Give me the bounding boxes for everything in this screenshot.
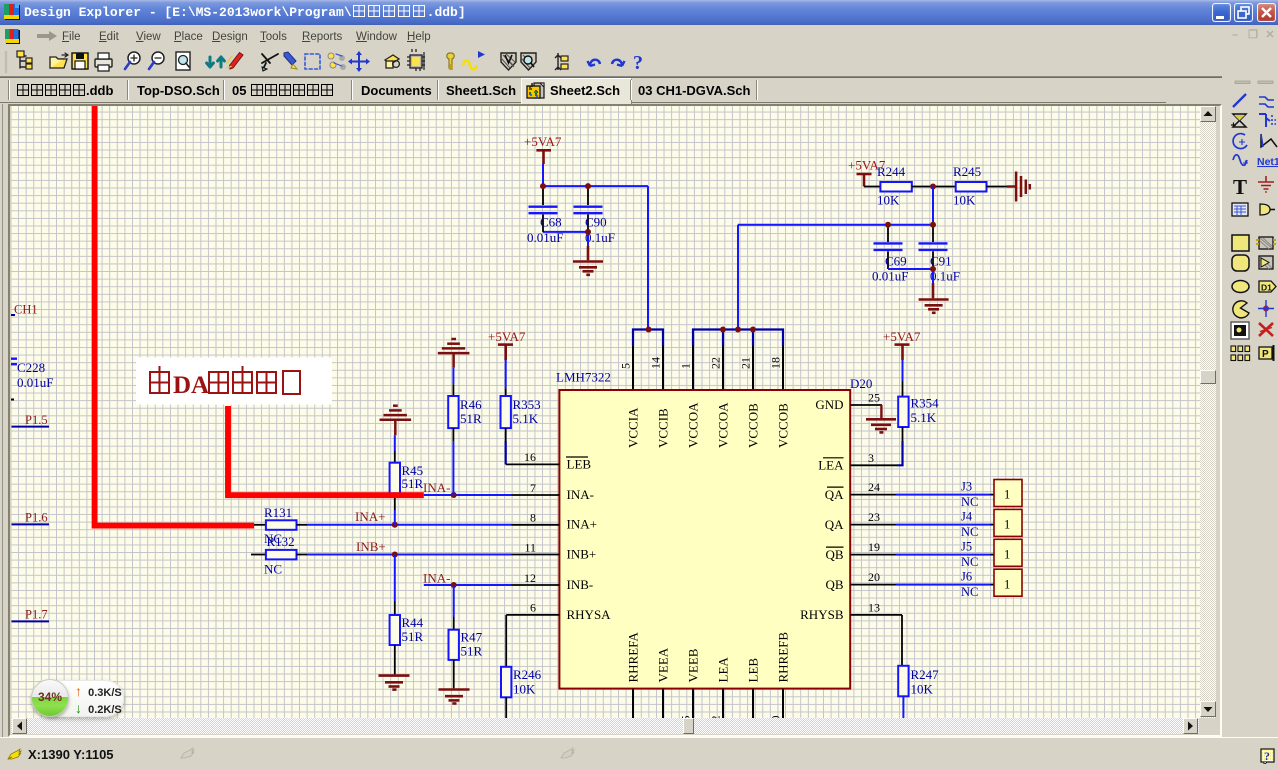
svg-text:5: 5 <box>619 363 633 369</box>
bracket over pins 5,14 <box>633 330 663 347</box>
svg-text:VCCOA: VCCOA <box>686 402 701 448</box>
svg-text:P1.6: P1.6 <box>25 511 48 525</box>
zoom out <box>152 52 164 64</box>
wrench yellow <box>447 53 454 68</box>
earth ground (right of R245) <box>1016 172 1030 202</box>
svg-text:R247: R247 <box>911 667 940 682</box>
row11: no-ERC X <box>1259 323 1273 336</box>
ground (R44) <box>379 676 410 690</box>
wire R354 to pin3 <box>902 427 904 441</box>
capacitor C228 (edge) <box>8 359 17 365</box>
connector J6 <box>994 569 1022 596</box>
red pencil <box>230 53 244 70</box>
svg-text:24: 24 <box>868 480 880 494</box>
svg-text:8: 8 <box>530 511 536 525</box>
svg-text:LEB: LEB <box>567 457 592 472</box>
svg-text:+5VA7: +5VA7 <box>524 134 562 149</box>
svg-text:+5VA7: +5VA7 <box>883 329 921 344</box>
open folder <box>50 59 67 68</box>
svg-text:P1.7: P1.7 <box>25 608 48 622</box>
svg-text:VCCIB: VCCIB <box>656 408 671 448</box>
svg-text:J4: J4 <box>961 509 973 523</box>
capacitor C91 <box>932 226 934 269</box>
menu bar <box>0 25 1278 48</box>
row6: power plug <box>1260 204 1270 215</box>
inverted ground (above R46) <box>438 339 470 368</box>
net label CH1 <box>8 314 15 316</box>
svg-text:LEA: LEA <box>818 458 844 473</box>
pin 6 wire (RHYSA) <box>506 614 559 616</box>
ground (C90) <box>573 246 603 275</box>
svg-text:INA-: INA- <box>423 570 450 585</box>
wire junction down <box>932 187 934 225</box>
svg-text:3: 3 <box>868 451 874 465</box>
svg-text:5.1K: 5.1K <box>513 411 539 426</box>
svg-text:1: 1 <box>1004 548 1010 562</box>
up down arrows <box>207 57 214 67</box>
connector J4 <box>994 509 1022 536</box>
ground (C91) <box>919 283 949 313</box>
svg-text:R132: R132 <box>267 534 295 549</box>
svg-text:RHREFB: RHREFB <box>776 632 791 683</box>
svg-text:1: 1 <box>1004 488 1010 502</box>
svg-text:INA+: INA+ <box>355 509 385 524</box>
chip pin name labels <box>567 397 845 682</box>
wire C69 top rail from chip bracket <box>738 224 933 226</box>
svg-text:J6: J6 <box>961 569 972 583</box>
row12: dot array <box>1231 346 1250 361</box>
svg-text:18: 18 <box>769 357 783 369</box>
svg-text:QB: QB <box>825 577 843 592</box>
svg-text:51R: 51R <box>461 644 483 659</box>
row2: hourglass paste <box>1233 114 1246 127</box>
shield 2 <box>521 53 536 70</box>
row3: arc <box>1233 134 1247 149</box>
move cross <box>350 53 367 70</box>
undo <box>588 60 601 66</box>
pin 11 wire (INB+) <box>307 554 512 556</box>
svg-text:0.01uF: 0.01uF <box>17 375 53 390</box>
svg-text:T: T <box>1233 175 1247 199</box>
title bar <box>0 0 1278 25</box>
wire R245 to earth <box>987 186 1008 188</box>
resistor R247 <box>898 666 908 697</box>
row11: graph box <box>1231 322 1249 339</box>
row6: sheet part <box>1232 203 1248 216</box>
pin 25 wire GND <box>850 404 882 406</box>
svg-text:J3: J3 <box>961 479 972 493</box>
svg-text:LEB: LEB <box>746 658 761 683</box>
row8: sheet symbol <box>1259 256 1273 269</box>
svg-text:51R: 51R <box>402 629 424 644</box>
svg-text:J5: J5 <box>961 539 972 553</box>
svg-text:R131: R131 <box>264 505 292 520</box>
resistor R354 <box>898 397 908 427</box>
pin 7 wire (INA-) <box>424 494 512 496</box>
row7: part <box>1259 237 1273 249</box>
svg-text:VCCOA: VCCOA <box>716 402 731 448</box>
power port +5VA7 (C68 group) <box>536 150 551 164</box>
svg-text:22: 22 <box>709 357 723 369</box>
svg-text:20: 20 <box>868 570 880 584</box>
pin 13 wire RHYSB <box>850 614 902 616</box>
wire vertical feed to pin22-21 bracket <box>737 225 739 330</box>
vertical scrollbar <box>1200 106 1216 718</box>
svg-text:INB-: INB- <box>567 577 594 592</box>
svg-text:RHYSB: RHYSB <box>800 607 844 622</box>
svg-text:51R: 51R <box>402 476 424 491</box>
capacitor C68 <box>542 187 544 232</box>
svg-text:LMH7322: LMH7322 <box>556 370 611 385</box>
svg-text:R246: R246 <box>513 667 542 682</box>
capacitor C90 <box>587 187 589 232</box>
svg-text:R353: R353 <box>513 397 541 412</box>
wire power stub <box>542 164 544 186</box>
junctions C69 rail <box>885 222 891 228</box>
svg-text:13: 13 <box>868 600 880 614</box>
row10: pie <box>1233 301 1249 318</box>
wire C91 to ground <box>932 269 934 283</box>
resistor R353 <box>501 396 511 428</box>
inverted ground (above R45) <box>380 406 412 436</box>
wire R247 down <box>902 696 904 718</box>
junctions on brackets <box>646 327 652 333</box>
scatter <box>328 53 334 59</box>
wire C69-C91 bottom rail <box>888 268 933 270</box>
svg-text:LEA: LEA <box>716 657 731 683</box>
svg-text:10K: 10K <box>877 193 900 208</box>
svg-text:QA: QA <box>825 487 844 502</box>
wire R45 to INA+ net <box>394 493 396 510</box>
svg-text:C228: C228 <box>17 360 45 375</box>
connector J3 <box>994 480 1022 507</box>
svg-text:23: 23 <box>868 510 880 524</box>
explorer tree <box>20 54 26 68</box>
svg-text:VCCOB: VCCOB <box>746 403 761 448</box>
row1: line tool <box>1233 94 1246 107</box>
wave flag <box>463 61 477 70</box>
pcb chip <box>410 55 422 68</box>
wire ground to R46 <box>452 368 454 385</box>
svg-text:R354: R354 <box>911 396 940 411</box>
svg-text:VCCOB: VCCOB <box>776 403 791 448</box>
save <box>72 53 88 69</box>
svg-text:25: 25 <box>868 391 880 405</box>
wire R46 to INA- junction <box>452 428 454 441</box>
svg-text:21: 21 <box>739 357 753 369</box>
resistor R244 <box>864 186 880 188</box>
connector J5 <box>994 539 1022 566</box>
svg-text:NC: NC <box>961 495 978 509</box>
svg-text:19: 19 <box>868 540 880 554</box>
svg-text:C69: C69 <box>885 254 907 269</box>
svg-text:INA-: INA- <box>423 480 450 495</box>
zoom in <box>128 52 140 64</box>
wire INB+ junction down to R44 <box>394 555 396 602</box>
printer <box>95 59 112 67</box>
svg-text:R44: R44 <box>402 615 424 630</box>
row9: ellipse <box>1232 281 1249 293</box>
resistor R131 <box>254 524 266 526</box>
left pin numbers <box>524 450 536 615</box>
annotation white box <box>136 358 332 405</box>
svg-text:11: 11 <box>524 540 536 554</box>
svg-text:QA: QA <box>825 517 844 532</box>
svg-text:0.01uF: 0.01uF <box>527 230 563 245</box>
svg-text:D1: D1 <box>1261 283 1272 293</box>
svg-text:C90: C90 <box>585 215 607 230</box>
svg-text:INB+: INB+ <box>356 539 386 554</box>
svg-text:0.01uF: 0.01uF <box>872 269 908 284</box>
redo <box>612 60 625 66</box>
status bar <box>0 737 1278 770</box>
svg-text:6: 6 <box>530 601 536 615</box>
wire R246 down <box>505 697 507 718</box>
pin 23 wire QA <box>850 524 896 526</box>
junction R244/R245 <box>930 184 936 190</box>
MDI area <box>8 104 1222 737</box>
footprint tool <box>385 55 399 64</box>
pin 16 wire (LEB) <box>506 463 560 465</box>
svg-text:C68: C68 <box>540 215 562 230</box>
wire C68 group top rail <box>543 185 648 187</box>
wire ground to R45 <box>394 435 396 451</box>
row12: P flag <box>1259 347 1272 359</box>
tab bar <box>0 77 1222 104</box>
bracket over pins 1,22,21,18 <box>693 330 783 347</box>
row9: port D1 <box>1259 281 1276 292</box>
net speed widget <box>31 679 126 719</box>
wire +5VA7 to R353 <box>505 360 507 388</box>
svg-text:7: 7 <box>530 481 536 495</box>
svg-text:GND: GND <box>815 397 843 412</box>
svg-text:VCCIA: VCCIA <box>626 407 641 448</box>
svg-text:10K: 10K <box>953 193 976 208</box>
blue pencil <box>284 52 296 65</box>
junction dots C68 rail <box>540 183 546 189</box>
wire vertical feed to pin5-14 bracket <box>647 186 649 330</box>
shield 1 <box>501 53 516 70</box>
svg-text:1: 1 <box>1004 518 1010 532</box>
wire R353 to pin16 <box>505 428 507 441</box>
resistor R246 <box>501 667 511 698</box>
ground (pin25) <box>866 419 896 432</box>
svg-text:R47: R47 <box>461 630 483 645</box>
svg-text:INB+: INB+ <box>567 547 597 562</box>
svg-text:NC: NC <box>264 562 282 577</box>
pin 24 wire QA <box>850 494 896 496</box>
red bus CH1 vertical+horizontal <box>95 106 255 526</box>
svg-text:NC: NC <box>961 555 978 569</box>
dashed select <box>305 54 320 69</box>
svg-text:DA: DA <box>173 372 209 399</box>
svg-text:VEEA: VEEA <box>656 647 671 682</box>
svg-text:10K: 10K <box>513 682 536 697</box>
resistor R46 <box>448 396 458 428</box>
svg-text:Net1: Net1 <box>1257 156 1278 168</box>
svg-text:QB: QB <box>825 547 843 562</box>
row7: rectangle <box>1232 235 1249 251</box>
ground (R47) <box>439 690 470 704</box>
top pin numbers <box>619 357 783 369</box>
capacitor C69 <box>887 226 889 269</box>
red bus DA reference <box>228 406 424 495</box>
horizontal scrollbar <box>11 718 1199 734</box>
overlines LEB LEA QA QB <box>566 457 844 547</box>
svg-text:NC: NC <box>961 525 978 539</box>
svg-text:?: ? <box>1264 749 1270 763</box>
row3: polyline <box>1261 134 1277 147</box>
toolbar <box>0 48 1278 77</box>
resistor R44 <box>390 615 400 645</box>
wiring tool <box>262 54 278 69</box>
netlist <box>555 53 561 70</box>
svg-text:VEEB: VEEB <box>686 648 701 682</box>
preview page <box>176 52 190 70</box>
svg-text:INA-: INA- <box>567 487 594 502</box>
row10: junction <box>1263 306 1269 312</box>
svg-text:1: 1 <box>1004 578 1010 592</box>
wire INA- junction down to R47 <box>453 585 455 617</box>
svg-text:R46: R46 <box>460 397 482 412</box>
svg-text:1: 1 <box>679 363 693 369</box>
top pin wires 5,14,1,22,21,18 <box>633 346 783 390</box>
svg-text:R244: R244 <box>877 164 906 179</box>
svg-text:RHREFA: RHREFA <box>626 632 641 683</box>
svg-text:RHYSA: RHYSA <box>567 607 612 622</box>
svg-text:P: P <box>1262 349 1269 360</box>
op-amp U LMH7322 chip body <box>559 390 850 689</box>
bottom pin numbers (clipped) <box>619 716 783 728</box>
pin 20 wire QB <box>850 584 896 586</box>
resistor R47 <box>449 630 459 660</box>
svg-text:5.1K: 5.1K <box>911 410 937 425</box>
resistor R45 <box>390 463 400 494</box>
svg-text:INA+: INA+ <box>567 517 597 532</box>
svg-text:10K: 10K <box>911 682 934 697</box>
wire R47 to ground <box>453 660 455 688</box>
pin 19 wire QB <box>850 554 896 556</box>
svg-text:D20: D20 <box>850 376 872 391</box>
row4: sine <box>1233 155 1247 166</box>
junction dots on input nets <box>451 492 457 498</box>
svg-text:CH1: CH1 <box>14 303 38 317</box>
pin 12 wire (INB-) <box>424 584 512 586</box>
row1: wire tool <box>1259 97 1274 107</box>
svg-text:P1.5: P1.5 <box>25 413 48 427</box>
resistor R245 <box>956 182 987 192</box>
wire R244-R245 <box>912 186 956 188</box>
row5: gnd symbol <box>1258 176 1274 192</box>
wire C68-C90 bottom rail <box>543 231 588 233</box>
row2: bus entry <box>1259 114 1270 127</box>
svg-text:16: 16 <box>524 450 536 464</box>
row8: rounded rect <box>1232 255 1249 271</box>
svg-text:51R: 51R <box>460 411 482 426</box>
svg-text:12: 12 <box>524 571 536 585</box>
bottom pin wires <box>633 689 783 718</box>
svg-text:+5VA7: +5VA7 <box>488 329 526 344</box>
wire C90 to ground <box>587 232 589 246</box>
svg-text:R245: R245 <box>953 164 981 179</box>
right tool palette <box>1222 70 1278 730</box>
svg-text:NC: NC <box>961 585 978 599</box>
annotation text 由DA提供参? <box>150 366 169 393</box>
wire R44 to ground <box>394 645 396 674</box>
pin 8 wire (INA+) <box>307 524 512 526</box>
svg-text:?: ? <box>633 52 643 74</box>
svg-text:14: 14 <box>649 357 663 369</box>
wire pin6 down to R246 <box>505 615 507 667</box>
wire +5VA7 to R354 <box>902 360 904 381</box>
